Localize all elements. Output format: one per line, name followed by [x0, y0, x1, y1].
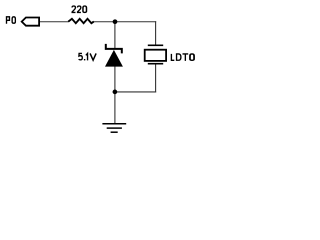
wire from port P0 to resistor R — [40, 21, 69, 23]
wire from zener anode down to bottom node — [114, 66, 116, 92]
port P0 symbol — [22, 18, 39, 26]
bottom wire from node to LDT0 branch — [115, 91, 156, 93]
label 5.1V — [79, 53, 96, 60]
wire down from LDT0 bottom plate to bottom wire — [155, 65, 157, 93]
node junction bottom — [113, 90, 118, 95]
label LDT0 — [171, 54, 194, 61]
ground bar 1 — [102, 123, 126, 125]
wire from top node down to zener cathode — [114, 22, 116, 49]
node junction top — [113, 19, 118, 24]
wire down from corner to LDT0 top plate — [155, 21, 157, 45]
LDT0 piezo sensor top plate — [148, 44, 163, 46]
LDT0 piezo sensor body rectangle — [145, 50, 166, 61]
zener diode cathode bar with ticks — [106, 44, 122, 54]
ground bar 3 — [111, 131, 118, 133]
wire ground stem — [114, 92, 116, 123]
zener diode triangle (anode) — [105, 50, 123, 67]
label 220 — [72, 6, 86, 12]
LDT0 piezo sensor bottom plate — [148, 63, 163, 65]
resistor 220 zigzag — [68, 19, 94, 23]
label P0 — [7, 17, 16, 24]
ground bar 2 — [107, 127, 122, 129]
wire from resistor to top-right corner above LDT0 — [94, 21, 157, 23]
